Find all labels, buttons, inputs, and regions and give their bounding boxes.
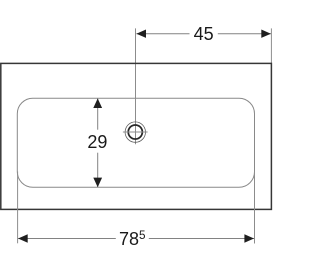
extension line right edge for 45-dimension: [270, 28, 272, 64]
drain cross horizontal: [123, 131, 148, 133]
arrowhead 29 top: [93, 98, 102, 108]
extension line from drain center up to 45-dimension: [135, 28, 137, 144]
extension line bottom-left for 78.5: [17, 172, 19, 244]
arrowhead 78.5 left: [18, 234, 28, 242]
washbasin outer rectangle: [1, 63, 272, 209]
arrowhead 29 bottom: [93, 178, 102, 188]
arrowhead 78.5 right: [244, 234, 254, 242]
dimension line 29 (top segment): [97, 99, 99, 130]
basin inner rounded outline: [17, 98, 254, 187]
dimension line 29 (bottom segment): [97, 153, 99, 187]
dimension line 78.5 (left segment): [18, 238, 116, 240]
drain outer circle: [125, 122, 145, 142]
dimension line 45 (right segment): [218, 33, 271, 35]
arrowhead 45 right: [261, 30, 271, 38]
svg-text:45: 45: [194, 24, 214, 44]
dimension line 45 (left segment): [136, 33, 189, 35]
extension line bottom-right for 78.5: [254, 172, 256, 244]
svg-text:29: 29: [87, 132, 107, 152]
drain inner ring: [128, 125, 142, 139]
arrowhead 45 left: [136, 30, 146, 38]
dimension line 78.5 (right segment): [149, 238, 254, 240]
